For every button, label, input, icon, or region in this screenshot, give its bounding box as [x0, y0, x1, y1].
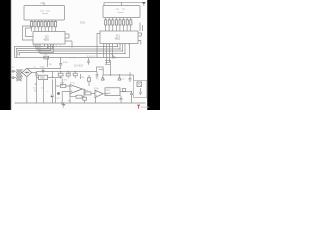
resistor R13	[105, 20, 107, 25]
resistor R5	[44, 21, 46, 27]
wire module output	[120, 91, 132, 93]
wire resistor leads to IC1	[32, 27, 56, 32]
capacitor C7	[96, 72, 99, 79]
node junctions on mid rail	[60, 71, 61, 72]
resistor R12	[85, 92, 91, 95]
node ticks on long rail	[70, 57, 71, 58]
wire bridge output	[32, 67, 104, 77]
ground rail	[15, 102, 146, 104]
resistor R3	[37, 21, 39, 27]
wire IC1 right brackets	[65, 34, 72, 48]
resistor R10	[60, 85, 65, 88]
display DS1 segments	[40, 11, 50, 14]
wire resistor leads to IC2	[106, 25, 131, 31]
node junctions	[117, 46, 118, 47]
wire	[47, 58, 49, 67]
svg-text:7805: 7805	[40, 78, 46, 80]
resistor R25	[122, 89, 125, 92]
wire opamp B output	[103, 93, 108, 95]
wire IC2 right brackets	[138, 23, 143, 45]
capacitor C1	[59, 58, 62, 69]
resistor R11 feedback	[76, 95, 82, 98]
wire display DS1 bottom rail	[32, 20, 56, 22]
wire bus IC1 to IC2	[34, 44, 125, 54]
resistor R2	[34, 21, 36, 27]
ground	[62, 103, 66, 107]
resistor R18	[123, 20, 125, 25]
svg-text:470u: 470u	[63, 62, 69, 64]
wire mid rail right	[103, 75, 133, 80]
preset VR1	[67, 72, 69, 74]
svg-text:IC3 4017: IC3 4017	[74, 66, 84, 68]
svg-text:RLY: RLY	[107, 90, 112, 92]
resistor R23	[60, 72, 62, 74]
wire raw DC rail	[27, 68, 61, 70]
wire regulator output	[48, 76, 63, 78]
resistor R17	[119, 20, 121, 25]
svg-text:4033: 4033	[115, 38, 121, 41]
capacitor C10	[120, 96, 123, 103]
capacitor C6	[129, 72, 132, 82]
resistor R1	[31, 21, 33, 27]
svg-text:1M: 1M	[81, 77, 84, 79]
display DS1	[24, 6, 65, 21]
capacitor C4	[130, 92, 133, 103]
wire IC1 left brackets	[23, 26, 34, 40]
node junction blob	[112, 54, 115, 57]
enclosure box relay RL1	[134, 80, 147, 97]
svg-text:Circuits: Circuits	[141, 105, 150, 109]
wire lower brackets	[105, 60, 111, 75]
svg-text:DIS1: DIS1	[80, 22, 86, 25]
resistor R27	[83, 97, 87, 100]
svg-text:3 2 6 7 1: 3 2 6 7 1	[87, 56, 96, 58]
svg-text:IC3b: IC3b	[94, 88, 99, 90]
wire bridge to ground rail	[27, 77, 37, 103]
op-amp U1 counter IC1	[33, 32, 65, 45]
op-amp U2 counter IC2	[100, 31, 138, 44]
svg-text:100n: 100n	[40, 67, 46, 69]
wire	[43, 3, 45, 6]
transformer T1	[14, 71, 16, 77]
watermark logo	[137, 105, 150, 109]
node +9V arrow	[142, 2, 146, 5]
preset VR2	[81, 74, 90, 86]
wire top supply line	[104, 2, 144, 5]
capacitor C3	[51, 79, 54, 103]
wire IC2 left lead	[97, 34, 100, 58]
wire opamp A output	[82, 88, 85, 90]
resistor R7	[51, 21, 53, 27]
resistor R14	[108, 20, 110, 25]
display DS2 segments	[116, 9, 125, 13]
capacitor C8	[87, 58, 90, 65]
wire vertical drops to ground rail	[56, 79, 71, 104]
svg-text:4026: 4026	[44, 38, 50, 41]
pin numbers IC2	[104, 44, 129, 46]
display DS2	[103, 6, 140, 18]
resistor R16	[115, 20, 117, 25]
wire regulator ground lead	[43, 80, 45, 103]
resistor R26	[48, 46, 53, 48]
resistor R9	[44, 56, 49, 59]
buzzer BZ1	[137, 82, 142, 87]
resistor R24	[74, 72, 76, 74]
svg-text:IC3a: IC3a	[70, 83, 75, 85]
op-amp U4A	[70, 85, 82, 94]
pin numbers IC1	[36, 44, 61, 46]
wire long rail	[15, 44, 130, 58]
connector J1 AC plug	[12, 70, 14, 72]
svg-text:+C: +C	[33, 67, 36, 69]
transistor Q2	[101, 75, 105, 80]
op-amp U4B	[95, 90, 103, 98]
resistor R8	[54, 21, 56, 27]
resistor R15	[112, 20, 114, 25]
transistor Q3	[118, 75, 122, 80]
module M1	[105, 88, 120, 96]
svg-text:DRV: DRV	[107, 93, 112, 95]
capacitor C2	[42, 69, 45, 73]
resistor R20	[130, 20, 132, 25]
wire opamp input	[56, 86, 71, 92]
junction node	[52, 77, 53, 78]
wire display DS2 pin stubs	[106, 18, 131, 20]
wire IC1 bottom pins left-routed	[15, 44, 54, 58]
resistor R19	[126, 20, 128, 25]
voltage regulator U3	[39, 75, 48, 79]
resistor R4	[41, 21, 43, 27]
bridge rectifier BR1	[22, 68, 32, 76]
junction node	[60, 57, 61, 58]
resistor R6	[48, 21, 50, 27]
wire	[95, 98, 97, 103]
svg-text:1M: 1M	[50, 44, 53, 46]
wire IC2 bottom pins	[104, 44, 113, 65]
transistor Q1	[57, 92, 60, 95]
ground	[139, 88, 142, 95]
